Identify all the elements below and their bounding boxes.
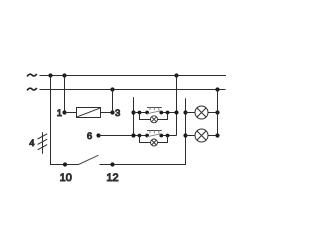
- wire relay coil to terminal 3: [101, 112, 113, 114]
- glow lamp E2: [151, 139, 158, 146]
- node on L1 at feed A: [48, 73, 52, 77]
- lamp E4: [195, 129, 208, 142]
- node G-row1: [215, 110, 219, 114]
- node D-row1: [131, 110, 135, 114]
- node terminal 6: [96, 133, 100, 137]
- wire vertical D (stub to button rows): [133, 97, 135, 135]
- svg-text:10: 10: [60, 172, 72, 184]
- lamp E3: [195, 106, 208, 119]
- svg-text:3: 3: [115, 108, 120, 119]
- node F-row1: [183, 110, 187, 114]
- node G-row2: [215, 133, 219, 137]
- switch blade 10-12: [79, 155, 99, 164]
- node terminal 10: [63, 162, 67, 166]
- push button S1 blade: [147, 111, 161, 114]
- svg-text:1: 1: [57, 108, 62, 119]
- push button S2 actuator: [147, 131, 162, 134]
- wire lamp row 2 right: [208, 135, 218, 137]
- svg-text:6: 6: [87, 131, 92, 142]
- node terminal 3: [110, 110, 114, 114]
- push button S1 contact nodes: [145, 111, 149, 115]
- svg-text:12: 12: [106, 172, 118, 184]
- node E-row1: [174, 110, 178, 114]
- push button S2 blade: [147, 134, 161, 137]
- AC symbol phase N: [27, 88, 37, 90]
- wire rail L1: [40, 75, 227, 77]
- wire lamp row 1 left: [186, 112, 196, 114]
- node on L1 at feed E: [174, 73, 178, 77]
- impulse relay K1 (box with diagonal): [77, 108, 101, 118]
- wire vertical A (L1 down to switch line): [51, 76, 79, 165]
- wire vertical B (L1 down to terminal 1): [64, 76, 66, 113]
- node D-row2: [131, 133, 135, 137]
- node F-row2: [183, 133, 187, 137]
- conductor-count mark (4 wires): [38, 132, 48, 154]
- wire button row 2 right: [161, 135, 176, 137]
- node terminal 12: [110, 162, 114, 166]
- svg-text:4: 4: [29, 138, 34, 149]
- glow lamp bracket row 2: [138, 134, 142, 138]
- push button S2 contact nodes: [145, 134, 149, 138]
- wire lamp row 1 right: [208, 112, 218, 114]
- wire vertical C (N down to terminal 3): [112, 90, 114, 113]
- wire vertical F (lamp feed from switch line): [100, 98, 186, 164]
- AC symbol phase L1: [27, 74, 37, 76]
- push button S1 actuator: [147, 108, 162, 111]
- wire terminal 1 to relay coil: [65, 112, 77, 114]
- glow lamp bracket row 1: [138, 111, 142, 115]
- wire lamp row 2 left: [186, 135, 196, 137]
- node on L1 at feed B: [62, 73, 66, 77]
- wire vertical G (N down to lamp returns): [217, 90, 219, 136]
- node on N at relay terminal 3 drop: [110, 87, 114, 91]
- node on N at lamp return drop: [215, 87, 219, 91]
- wire vertical E (L1 down joining button rows): [176, 76, 178, 136]
- wire rail N: [40, 89, 226, 91]
- wire terminal 6 to button row 2: [99, 135, 148, 137]
- wire button row 1 right: [161, 112, 176, 114]
- wire button row 1 left: [134, 112, 148, 114]
- node terminal 1: [62, 110, 66, 114]
- glow lamp E1: [151, 116, 158, 123]
